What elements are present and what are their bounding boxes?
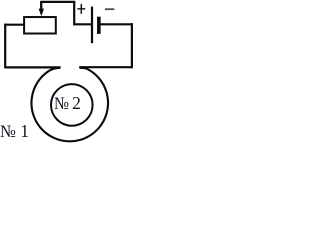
rheostat slider arrowhead bbox=[39, 9, 44, 17]
wire: battery - lead bbox=[100, 23, 133, 25]
coil 2: inner loop bbox=[51, 84, 93, 126]
wire: right vertical bbox=[131, 23, 133, 68]
wire: vertical down to battery + bbox=[73, 2, 75, 26]
wire: bottom-left horizontal to coil bbox=[5, 66, 60, 68]
wire: top horizontal from slider to battery branch bbox=[40, 1, 75, 3]
wire: bottom-right horizontal to coil bbox=[79, 66, 132, 68]
label "No 2" of inner coil bbox=[54, 93, 69, 114]
battery long plate (+) bbox=[91, 7, 93, 44]
battery short thick plate (-) bbox=[97, 17, 101, 34]
wire: left horizontal lead into rheostat bbox=[4, 24, 24, 26]
label "No 1" of outer coil bbox=[0, 121, 15, 142]
rheostat slider arrow shaft bbox=[40, 2, 42, 11]
battery - polarity sign bbox=[105, 8, 114, 10]
wire: left vertical bbox=[4, 24, 6, 69]
battery + polarity sign bbox=[77, 4, 85, 14]
wire: battery + lead bbox=[74, 23, 91, 25]
coil 1: outer loop with top gap bbox=[31, 68, 108, 142]
resistor R (rheostat body) bbox=[24, 17, 56, 33]
